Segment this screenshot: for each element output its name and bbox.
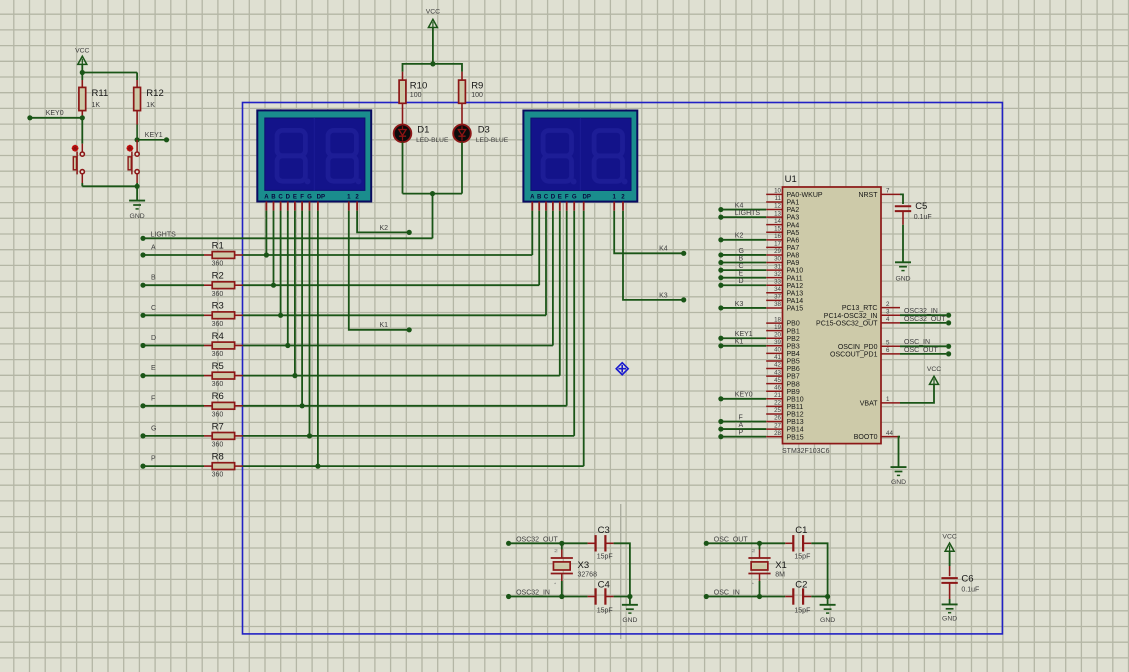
svg-text:45: 45 [774,377,781,384]
cursor marker [616,363,628,375]
wire row P right [243,465,584,467]
wire row G right [243,435,575,437]
node OSC32_IN junction [559,594,564,599]
svg-text:13: 13 [774,210,781,217]
svg-text:A: A [264,193,269,200]
svg-text:PA9: PA9 [787,260,800,267]
svg-text:GND: GND [820,617,835,624]
svg-text:X1: X1 [775,560,787,571]
wire DS1 pin E drop [294,211,296,376]
svg-text:OSC32_IN: OSC32_IN [904,308,938,315]
svg-text:C: C [544,194,549,201]
wire DS1 pin F drop [301,211,303,406]
terminal LIGHTS (U1) [718,215,723,220]
wire DS2 pin B drop [538,211,540,286]
wire row F left [143,405,204,407]
wire row C right [243,314,546,316]
terminal K1 [407,327,412,332]
svg-text:PB11: PB11 [787,404,804,411]
svg-text:VCC: VCC [426,9,440,16]
svg-text:R12: R12 [146,88,163,99]
svg-text:A: A [151,245,156,252]
svg-text:OSC_IN: OSC_IN [714,590,740,597]
svg-text:PB0: PB0 [787,321,800,328]
svg-text:PB5: PB5 [787,359,800,366]
resistor R9 [461,72,463,80]
terminal A [140,252,145,257]
ground (X1) [827,597,829,605]
svg-text:LED-BLUE: LED-BLUE [416,137,449,144]
wire row G left [143,435,204,437]
wire DS1 pin 1 to K1 [349,211,409,330]
ground (BOOT0) [891,466,907,468]
wire row P left [143,465,204,467]
svg-text:360: 360 [212,472,224,479]
wire VCC to C6 [949,551,951,566]
svg-text:360: 360 [212,442,224,449]
svg-text:8M: 8M [775,571,785,578]
svg-text:OSC32_OUT: OSC32_OUT [904,316,946,323]
resistor R1 [204,254,212,256]
svg-text:R6: R6 [212,391,224,402]
svg-text:VCC: VCC [75,48,89,55]
svg-text:22: 22 [774,400,781,407]
wire NRST to C5 [900,194,903,204]
terminal OSC32_OUT (U1) [900,322,946,324]
svg-text:F: F [151,395,155,402]
svg-text:PB2: PB2 [787,336,800,343]
resistor R4 [204,345,212,347]
svg-text:PA2: PA2 [787,207,800,214]
svg-text:PA15: PA15 [787,306,804,313]
svg-text:15: 15 [774,225,781,232]
svg-text:KEY1: KEY1 [735,331,753,338]
svg-text:PB12: PB12 [787,412,804,419]
svg-text:U1: U1 [785,174,797,185]
terminal G [140,433,145,438]
wire row E left [143,375,204,377]
svg-text:1K: 1K [146,102,155,109]
svg-text:15pF: 15pF [597,608,613,615]
svg-text:GND: GND [895,276,910,283]
capacitor C2 [785,596,793,598]
mcu U1 right pins [881,194,900,436]
svg-text:1K: 1K [92,102,101,109]
svg-text:5: 5 [886,340,890,347]
svg-text:R2: R2 [212,271,224,282]
svg-text:14: 14 [774,218,781,225]
svg-text:LIGHTS: LIGHTS [151,231,177,238]
svg-text:360: 360 [212,381,224,388]
crystal X1 [759,543,761,549]
terminal KEY0 (U1) [718,396,723,401]
svg-text:360: 360 [212,261,224,268]
wire DS1 pin B drop [273,211,275,286]
svg-text:KEY0: KEY0 [735,392,753,399]
terminal C (U1) [718,268,723,273]
svg-text:KEY1: KEY1 [145,132,163,139]
wire row B right [243,284,540,286]
wire KEY0 node to button SW1 [81,118,83,144]
mcu U1 body STM32F103C6 [783,187,882,444]
capacitor C1 [785,542,793,544]
terminal OSC32_IN (U1) [900,314,946,316]
svg-text:3: 3 [886,308,890,315]
svg-text:PB9: PB9 [787,389,800,396]
svg-text:42: 42 [774,362,781,369]
svg-text:10: 10 [774,188,781,195]
wire DS2 pin E drop [559,211,561,376]
svg-text:15pF: 15pF [597,554,613,561]
svg-text:37: 37 [774,294,781,301]
svg-text:PB1: PB1 [787,328,800,335]
svg-text:OSC32_OUT: OSC32_OUT [516,536,558,543]
terminal OSC_IN [704,594,709,599]
wire VCC to VBAT [900,384,934,403]
svg-text:15pF: 15pF [794,608,810,615]
svg-text:OSC32_IN: OSC32_IN [516,590,550,597]
wire OSC32_OUT row [509,542,562,544]
svg-text:PC14-OSC32_IN: PC14-OSC32_IN [824,313,878,320]
wire OSC_OUT row [706,542,759,544]
svg-text:360: 360 [212,321,224,328]
node LED rail junction [430,61,435,66]
wire SW1 to ground rail [81,174,83,183]
diode D3 LED-BLUE [453,125,471,143]
ground (keys) [136,186,138,200]
svg-text:360: 360 [212,411,224,418]
wire row B left [143,284,204,286]
svg-text:NRST: NRST [858,192,878,199]
svg-text:PA1: PA1 [787,200,800,207]
svg-text:K2: K2 [380,225,389,232]
svg-text:DP: DP [317,193,325,200]
resistor R12 [136,80,138,87]
svg-text:PB10: PB10 [787,396,804,403]
terminal KEY0 [27,115,32,120]
svg-text:A: A [739,422,744,429]
svg-text:PA0-WKUP: PA0-WKUP [787,192,823,199]
svg-text:PA13: PA13 [787,290,804,297]
svg-text:OSC_OUT: OSC_OUT [904,347,939,354]
svg-text:R8: R8 [212,452,224,463]
node ground rail junction (X1) [825,594,830,599]
wire C4 to ground rail [614,596,630,598]
svg-text:29: 29 [774,248,781,255]
wire DS2 pin G drop [573,211,575,436]
svg-text:C5: C5 [915,201,927,212]
svg-text:PA3: PA3 [787,215,800,222]
svg-text:B: B [151,275,156,282]
svg-text:31: 31 [774,263,781,270]
svg-text:0.1uF: 0.1uF [961,587,979,594]
wire C5 to ground [902,211,904,225]
wire DS1 pin DP drop [317,211,319,467]
terminal F [140,403,145,408]
svg-text:OSCIN_PD0: OSCIN_PD0 [838,344,878,351]
svg-text:R4: R4 [212,331,224,342]
wire C3 to ground rail [614,543,630,596]
wire DS1 pin D drop [287,211,289,346]
wire DS1 pin G drop [309,211,311,436]
ground (C6) [942,603,958,605]
svg-text:PA6: PA6 [787,237,800,244]
svg-text:17: 17 [774,241,781,248]
node row G junction [307,433,312,438]
svg-text:46: 46 [774,384,781,391]
svg-text:G: G [151,425,156,432]
terminal K4 (U1) [718,207,723,212]
terminal K3 (U1) [718,305,723,310]
svg-text:*: * [554,582,556,587]
svg-text:0.1uF: 0.1uF [914,214,932,221]
node KEY0 junction [80,115,85,120]
crystal X3 [561,543,563,549]
display DS2 pins [532,202,623,211]
svg-text:KEY0: KEY0 [46,110,64,117]
svg-text:R10: R10 [410,81,427,92]
svg-text:1: 1 [613,194,617,201]
diode D1 LED-BLUE [394,125,412,143]
ground (X3) [629,597,631,605]
svg-text:*: * [752,582,754,587]
svg-text:C: C [739,263,744,270]
wire row D right [243,345,553,347]
wire KEY1 node to button SW2 [136,140,138,152]
svg-text:G: G [572,194,577,201]
svg-text:F: F [300,193,304,200]
wire LED rail [403,64,463,72]
node row DP junction [315,464,320,469]
svg-text:360: 360 [212,351,224,358]
capacitor C3 [588,542,596,544]
node row E junction [292,373,297,378]
wire SW2 to ground rail [136,174,138,183]
svg-text:PA10: PA10 [787,268,804,275]
terminal G (U1) [718,252,723,257]
terminal OSC_IN (U1) [900,345,946,347]
svg-text:E: E [739,270,744,277]
wire DS1 pin 2 to K2 [357,211,409,233]
terminal P (U1) [718,434,723,439]
terminal A (U1) [718,426,723,431]
svg-text:C: C [278,193,283,200]
svg-text:100: 100 [471,92,483,99]
wire VCC to R11/R12 top rail [81,64,83,80]
svg-text:C: C [151,305,156,312]
svg-text:6: 6 [886,347,890,354]
svg-text:OSC_IN: OSC_IN [904,339,930,346]
svg-text:15pF: 15pF [794,554,810,561]
svg-text:GND: GND [942,616,957,623]
resistor R10 [402,72,404,80]
svg-text:GND: GND [130,213,145,220]
svg-text:E: E [151,365,156,372]
svg-text:C4: C4 [598,579,610,590]
wire LED cathodes to LIGHTS net [402,142,404,193]
svg-text:C1: C1 [795,525,807,536]
svg-text:K4: K4 [735,202,744,209]
terminal OSC32_OUT [506,541,511,546]
terminal K3 [681,297,686,302]
svg-text:OSCOUT_PD1: OSCOUT_PD1 [830,352,878,359]
svg-text:E: E [293,193,297,200]
svg-text:25: 25 [774,407,781,414]
terminal K2 [407,230,412,235]
node row F junction [300,403,305,408]
svg-text:43: 43 [774,369,781,376]
terminal LIGHTS [140,236,145,241]
svg-text:PB8: PB8 [787,381,800,388]
svg-text:1: 1 [886,396,890,403]
wire OSC32_IN row [509,596,562,598]
node ground rail junction [135,184,140,189]
display DS1 pins [266,202,357,211]
svg-text:30: 30 [774,256,781,263]
svg-text:26: 26 [774,415,781,422]
wire BOOT0 to ground [899,437,901,468]
svg-text:PB7: PB7 [787,374,800,381]
svg-text:7: 7 [886,188,890,195]
svg-text:44: 44 [886,430,893,437]
wire C1 to ground rail [811,543,827,596]
terminal B (U1) [718,260,723,265]
svg-text:B: B [537,194,542,201]
svg-text:18: 18 [774,316,781,323]
svg-text:G: G [739,248,744,255]
terminal B [140,283,145,288]
svg-text:R7: R7 [212,421,224,432]
svg-text:R5: R5 [212,361,224,372]
svg-text:VCC: VCC [942,533,956,540]
wire row A left [143,254,204,256]
svg-text:PA12: PA12 [787,283,804,290]
svg-text:19: 19 [774,324,781,331]
wire DS2 pin C drop [545,211,547,316]
svg-text:34: 34 [774,286,781,293]
wire DS2 pin DP drop [583,211,585,466]
resistor R8 [204,465,212,467]
svg-text:D: D [551,194,556,201]
svg-text:21: 21 [774,392,781,399]
svg-text:P: P [739,429,744,436]
terminal P [140,464,145,469]
svg-text:K4: K4 [659,246,668,253]
wire DS2 pin 1 to K4 [614,211,684,254]
svg-text:C2: C2 [795,579,807,590]
node VCC rail junction [80,70,85,75]
terminal KEY1 [137,139,166,141]
svg-text:K3: K3 [735,301,744,308]
terminal KEY1 (U1) [718,336,723,341]
svg-text:BOOT0: BOOT0 [854,434,878,441]
wire DS2 pin D drop [552,211,554,346]
svg-text:GND: GND [622,617,637,624]
wire VCC to LED rail [432,28,434,64]
svg-text:N: N [553,549,558,552]
svg-text:100: 100 [410,92,422,99]
svg-text:R9: R9 [471,81,483,92]
wire row A right [243,254,533,256]
svg-text:39: 39 [774,339,781,346]
terminal K4 [681,251,686,256]
sheet border box [243,103,1003,634]
svg-text:PA4: PA4 [787,222,800,229]
wire DS2 pin 2 to K3 [623,211,684,300]
node row B junction [271,283,276,288]
svg-text:32768: 32768 [578,571,598,578]
svg-text:11: 11 [775,195,782,202]
wire OSC_IN row [706,596,759,598]
terminal E [140,373,145,378]
capacitor C4 [588,596,596,598]
svg-text:VBAT: VBAT [860,401,878,408]
svg-text:2: 2 [886,301,890,308]
svg-text:4: 4 [886,316,890,323]
terminal D [140,343,145,348]
terminal E (U1) [718,275,723,280]
wire row F right [243,405,567,407]
node OSC_OUT junction [757,541,762,546]
svg-text:PB4: PB4 [787,351,800,358]
svg-text:38: 38 [774,301,781,308]
svg-text:GND: GND [891,479,906,486]
node OSC_IN junction [757,594,762,599]
svg-text:R11: R11 [92,88,109,99]
svg-text:C3: C3 [598,525,610,536]
push-button SW2 (KEY1) [127,145,134,152]
svg-text:D: D [739,278,744,285]
svg-text:PB15: PB15 [787,434,804,441]
svg-text:K1: K1 [735,339,744,346]
svg-text:K1: K1 [380,322,389,329]
svg-text:PB6: PB6 [787,366,800,373]
svg-text:VCC: VCC [927,366,941,373]
capacitor C6 [941,577,957,579]
7-segment display DS1 [257,110,371,201]
wire DS2 pin A drop [531,211,533,255]
mcu U1 left pins [766,194,782,436]
svg-text:PA7: PA7 [787,245,800,252]
svg-text:D3: D3 [478,125,490,136]
svg-text:X3: X3 [578,560,590,571]
wire row D left [143,345,204,347]
wire C6 to ground [949,583,951,599]
node OSC32_OUT junction [559,541,564,546]
node row C junction [278,313,283,318]
svg-text:PC15-OSC32_OUT: PC15-OSC32_OUT [816,321,878,328]
terminal F (U1) [718,419,723,424]
svg-text:OSC_OUT: OSC_OUT [714,536,749,543]
svg-text:16: 16 [774,233,781,240]
svg-text:PA11: PA11 [787,275,803,282]
resistor R5 [204,375,212,377]
svg-text:B: B [271,193,276,200]
svg-text:N: N [751,549,756,552]
terminal OSC_OUT (U1) [900,353,946,355]
svg-text:G: G [307,193,312,200]
svg-text:P: P [151,456,156,463]
svg-text:D: D [151,335,156,342]
svg-text:D: D [286,193,291,200]
node row A junction [264,252,269,257]
svg-text:K2: K2 [735,233,744,240]
svg-text:41: 41 [774,354,781,361]
wire C2 to ground rail [811,596,827,598]
svg-text:B: B [739,255,744,262]
terminal K2 (U1) [718,237,723,242]
resistor R11 [81,80,83,87]
